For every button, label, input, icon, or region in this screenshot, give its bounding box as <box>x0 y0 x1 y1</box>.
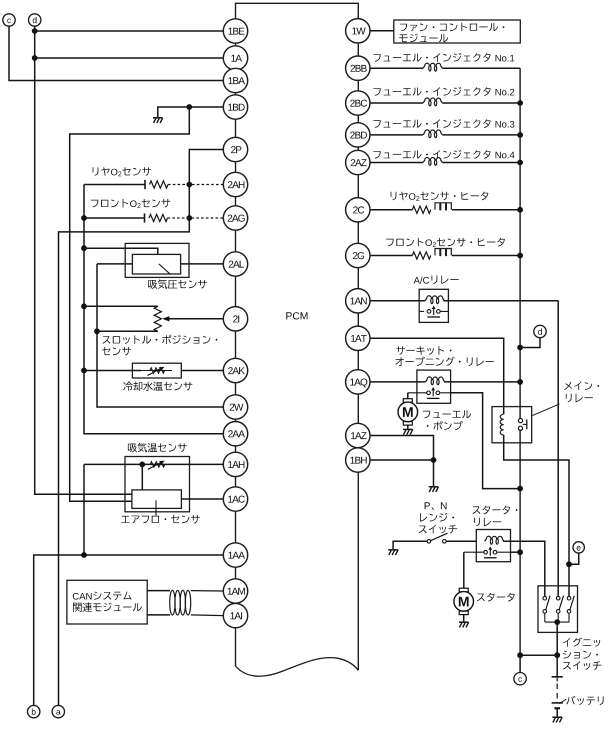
wire to pin 1A <box>35 57 224 59</box>
wire CO relay contact right down to bus <box>451 393 520 489</box>
pin 2BD <box>346 123 370 147</box>
wire pin 2I to wiper arrow <box>169 318 224 320</box>
wire throttle sensor bottom <box>97 330 158 332</box>
vertical from 1AH wire corner to 1AA junction <box>83 464 85 555</box>
starter relay box <box>476 530 510 562</box>
leader line to airflow sensor label <box>155 500 157 515</box>
intake pressure sensor inner box <box>132 254 180 274</box>
wire ignition common down <box>556 622 558 655</box>
wire pin to injector No.3 <box>370 134 423 136</box>
CAN system module box <box>67 580 147 624</box>
label main relay line2 <box>566 394 593 403</box>
relay coil (A/C relay) <box>425 296 445 304</box>
wire pin 2G to heater <box>370 255 412 257</box>
battery cell plate (rear O2 sensor) <box>144 180 146 189</box>
+B bus vertical (upper run) <box>519 68 521 419</box>
battery cell plate (front O2 sensor) <box>144 213 146 222</box>
label P-N range switch line2 <box>420 513 454 522</box>
node junction battery feed <box>554 652 560 658</box>
label intake air temp sensor <box>128 443 187 453</box>
wire starter motor to ground <box>463 615 465 622</box>
ignition switch contacts <box>543 596 547 600</box>
pin 1BA <box>223 68 247 92</box>
label throttle position sensor line2 <box>102 347 131 356</box>
node junction injector No.2 / bus <box>517 100 523 106</box>
heater element (front O2 heater) <box>435 249 451 256</box>
wire circuit opening relay coil to bus <box>444 381 520 383</box>
node junction rear heater / bus <box>517 207 523 213</box>
intake air temp sensor outer box <box>125 457 190 512</box>
connector e <box>573 542 584 553</box>
wire from connector c to pin 1BA <box>9 26 223 80</box>
pin 1BH <box>346 448 370 472</box>
relay coil (starter relay) <box>485 536 505 544</box>
wire pin 1BH to ground junction <box>370 459 434 461</box>
wire thermistor tap down to airflow element <box>141 464 143 490</box>
node junction d / bus <box>517 345 523 351</box>
pin 2AK <box>223 358 247 382</box>
node junction injector No.4 / bus <box>517 160 523 166</box>
node junction fuel pump feed / bus <box>517 486 523 492</box>
x=97 rail from pressure sensor to 2W wire <box>97 264 223 407</box>
node junction 1AZ/1BH <box>431 457 437 463</box>
relay coil (circuit opening relay) <box>425 377 445 385</box>
resistor (rear O2 sensor) <box>150 181 169 188</box>
wire pressure sensor output to x=97 rail <box>97 263 132 265</box>
wire 1AH / intake temp thermistor <box>84 463 223 465</box>
wire pin to injector No.2 <box>370 102 423 104</box>
wire pin 1AZ to ground junction <box>370 436 434 487</box>
inductor coil (fuel injector No.2) <box>423 98 443 106</box>
wire from connector d down left side <box>35 26 132 494</box>
relay contact (circuit opening relay) <box>427 391 431 395</box>
P/N range switch contacts <box>427 540 431 544</box>
thermistor (coolant temp sensor) <box>150 368 165 373</box>
wire injector No.2 to +B bus <box>443 102 521 104</box>
wire injector No.1 to +B bus <box>443 67 521 69</box>
pin 2AG <box>223 206 247 230</box>
motor fuel pump <box>403 399 412 403</box>
label fuel injector No.3 <box>373 119 514 128</box>
wire battery to ground <box>556 708 558 716</box>
pin 1W <box>346 19 370 43</box>
label ignition switch line3 <box>563 661 601 670</box>
ignition switch common bar <box>545 621 570 623</box>
ground (P/N switch) <box>388 549 398 551</box>
wire starter relay coil to ignition ST feed <box>503 541 545 596</box>
node junction e / main relay feed <box>566 561 572 567</box>
connector c (bottom) <box>514 673 526 685</box>
node junction throttle bottom / x=97 rail <box>94 328 100 334</box>
A/C relay contact wires <box>419 310 424 312</box>
inductor coil (fuel injector No.4) <box>423 157 443 165</box>
wire pin 1BD to ground with branch <box>158 107 224 117</box>
inductor coil (fuel injector No.1) <box>423 63 443 71</box>
wire fuel pump to ground <box>407 425 409 429</box>
label fuel injector No.4 <box>373 150 514 159</box>
label P-N range switch line3 <box>419 525 457 534</box>
main relay contact lower circle <box>518 426 522 430</box>
dashed wire front O2 to pin 2AG <box>168 217 224 219</box>
wire 1BD branch down-left to airflow sensor <box>70 107 190 501</box>
label fuel injector No.1 <box>373 53 514 62</box>
wire pressure sensor to pin 2AL <box>181 263 224 265</box>
ground (battery) <box>552 716 562 718</box>
connector d (top) <box>29 14 41 26</box>
wire throttle sensor top <box>84 305 158 307</box>
wire pin 1AA to connector b <box>34 555 224 705</box>
intake pressure sensor outer box <box>125 243 189 277</box>
pin 2C <box>346 198 370 222</box>
coolant temp sensor box <box>132 363 181 378</box>
node junction 1AA / sensor-ground rail <box>81 552 87 558</box>
wire pin 2P down to connector a line <box>59 150 224 706</box>
wire pin to injector No.1 <box>370 67 423 69</box>
label fuel injector No.2 <box>373 87 514 96</box>
wire battery junction to battery <box>556 655 558 677</box>
node junction on d-wire to 1A <box>32 55 38 61</box>
label circuit opening relay line2 <box>396 357 494 366</box>
wire injector No.4 to +B bus <box>443 162 521 164</box>
ground (fuel pump) <box>403 428 413 430</box>
node junction front O2 / sensor-ground <box>81 215 87 221</box>
ACC feed wire down to ignition switch <box>557 301 559 597</box>
label front O2 sensor heater <box>386 238 505 247</box>
wire coolant sensor left <box>84 370 141 372</box>
P/N switch blade <box>431 533 448 541</box>
pin 2AH <box>223 172 247 196</box>
label fan control module line1 <box>400 23 505 32</box>
twisted pair wire bottom to pin 1AI <box>147 614 170 616</box>
node junction CO relay coil / bus <box>517 379 523 385</box>
pin 2AL <box>223 252 247 276</box>
ground (starter) <box>459 621 469 623</box>
wire pin 1W to fan control module <box>370 30 394 32</box>
pin 2W <box>223 395 247 419</box>
wire pin 1AN to A/C relay coil <box>370 300 425 302</box>
starter relay contact wires <box>464 551 484 553</box>
pin 1AQ <box>346 370 370 394</box>
pin 1AH <box>223 452 247 476</box>
relay contact (A/C relay) <box>427 310 431 314</box>
node junction injector No.3 / bus <box>517 132 523 138</box>
wire airflow sensor to pin 1AC <box>181 498 223 500</box>
wire pin to injector No.4 <box>370 162 423 164</box>
pin 1AZ <box>346 423 370 447</box>
label CAN system line2 <box>73 603 142 613</box>
resistor (front O2 sensor) <box>149 214 168 221</box>
label coolant temp sensor <box>123 382 192 392</box>
wire rear O2 sensor left <box>84 184 145 186</box>
label main relay line1 <box>564 382 599 391</box>
label battery <box>566 696 603 705</box>
relay contact (starter relay) <box>484 550 488 554</box>
ground (1AZ/1BH) <box>429 486 439 488</box>
wire starter relay contact to starter motor <box>463 552 465 588</box>
label fuel pump line2 <box>427 421 463 430</box>
label fan control module line2 <box>399 34 448 43</box>
wire bus junction to battery junction <box>520 654 557 656</box>
wire pin 1AQ to circuit opening relay coil <box>370 381 425 383</box>
node junction front heater / bus <box>517 253 523 259</box>
relay coil (main relay, vertical) <box>500 414 503 435</box>
label front O2 sensor <box>91 199 170 208</box>
wire main relay coil bottom to ignition switch feed <box>504 435 569 596</box>
wire coolant sensor to pin 2AK <box>181 370 223 372</box>
label CAN system line1 <box>73 592 132 600</box>
label P-N range switch line1 <box>425 502 430 509</box>
wire connector d to bus <box>520 338 540 348</box>
resistor throttle position sensor (potentiometer) <box>154 306 161 331</box>
wire injector No.3 to +B bus <box>443 134 521 136</box>
label circuit opening relay line1 <box>396 346 451 355</box>
label ignition switch line2 <box>563 651 598 659</box>
node junction throttle sensor / sensor-ground <box>81 303 87 309</box>
main relay contact upper circle <box>518 419 522 423</box>
node junction coolant sensor / sensor-ground <box>81 368 87 374</box>
wire front O2 sensor left <box>84 217 145 219</box>
wire pin 2C to heater <box>370 209 412 211</box>
wiper arrow (throttle position sensor) <box>162 316 169 321</box>
connector c (top) <box>3 14 15 26</box>
pin 2I <box>223 307 247 331</box>
battery dashed middle <box>556 684 558 701</box>
twisted pair wire top to pin 1AM <box>147 590 170 592</box>
inductor coil (fuel injector No.3) <box>423 130 443 138</box>
wire starter relay contact to bus <box>511 551 521 553</box>
pin 1A <box>223 46 247 70</box>
pin 2AA <box>223 422 247 446</box>
wire A/C relay coil right, across bus to ACC feed <box>444 300 559 302</box>
node junction pressure sensor / sensor-ground <box>81 245 87 251</box>
leader line to battery label <box>560 699 567 704</box>
node junction bus / connector c2 <box>517 652 523 658</box>
wire coolant sensor through <box>141 370 172 372</box>
leader line to main relay label <box>532 404 559 416</box>
node junction ignition common <box>554 619 560 625</box>
node junction 2P-line / front O2 signal <box>186 215 192 221</box>
heater element (rear O2 heater) <box>435 203 451 210</box>
twisted pair loops <box>170 590 175 615</box>
label starter relay line2 <box>474 518 501 527</box>
label starter <box>477 593 515 602</box>
sensor-ground vertical wire (x=84) <box>84 185 223 434</box>
node junction on d-wire to 1BE <box>32 28 38 34</box>
node junction on 1BD wire <box>186 104 192 110</box>
label rear O2 sensor heater <box>391 192 489 201</box>
wire CO relay contact to fuel pump <box>407 393 409 399</box>
wire pin 1AT to main relay coil <box>370 338 504 414</box>
pin 1BE <box>223 19 247 43</box>
A/C relay box <box>419 289 448 322</box>
pin 2G <box>346 243 370 267</box>
label ignition switch line1 <box>563 638 600 647</box>
PCM box outline <box>236 3 359 670</box>
motor starter <box>459 588 468 592</box>
wire to pin 1BE <box>35 30 224 32</box>
pin 2BB <box>346 56 370 80</box>
pin 2BC <box>346 91 370 115</box>
wire front O2 heater to bus <box>452 255 520 257</box>
wire down to connector c <box>519 655 521 672</box>
resistor (front O2 heater) <box>412 252 431 259</box>
fan control module box <box>394 20 521 43</box>
pin 1AN <box>346 289 370 313</box>
node junction 2P-line / rear O2 signal <box>186 182 192 188</box>
pin 2P <box>223 137 247 161</box>
label intake pressure sensor <box>148 279 207 289</box>
pin 1AC <box>223 487 247 511</box>
label airflow sensor <box>121 515 200 524</box>
circuit opening relay contact wires <box>408 392 427 394</box>
connector b <box>28 705 40 717</box>
wire P/N switch to ground <box>393 541 427 549</box>
wire sensor-ground to pressure sensor top <box>84 248 158 254</box>
pin 1AI <box>223 603 247 627</box>
ignition switch box <box>538 586 578 633</box>
node junction thermistor tap <box>139 462 145 468</box>
wire connector e to ignition feed <box>569 553 579 564</box>
resistor (rear O2 heater) <box>412 206 431 213</box>
+B bus vertical (lower run) <box>519 430 521 655</box>
circuit opening relay box <box>417 370 451 403</box>
node junction starter relay / bus <box>517 549 523 555</box>
pin 1AM <box>223 579 247 603</box>
main relay contact plunger <box>523 423 527 425</box>
dashed wire rear O2 to pin 2AH <box>168 184 223 186</box>
label rear O2 sensor <box>93 167 152 176</box>
label fuel pump line1 <box>423 410 471 418</box>
pin 1AA <box>223 543 247 567</box>
intake pressure sensor diagonal mark <box>159 264 170 274</box>
PCM box wavy bottom edge <box>236 658 359 677</box>
battery cell plates <box>552 676 563 678</box>
connector a <box>52 705 64 717</box>
thermistor (intake air temp sensor) <box>150 462 165 467</box>
pin 1AT <box>346 326 370 350</box>
airflow sensor inner box <box>132 490 182 509</box>
label starter relay line1 <box>473 506 518 515</box>
pin 2AZ <box>346 150 370 174</box>
ground (1BD) <box>153 117 163 119</box>
label PCM <box>286 312 307 319</box>
label throttle position sensor line1 <box>103 335 218 344</box>
label A/C relay <box>414 275 459 284</box>
pin 1BD <box>223 95 247 119</box>
wire P/N switch to starter relay <box>446 540 476 542</box>
wire rear O2 heater to bus <box>452 209 520 211</box>
main relay box <box>492 407 532 443</box>
